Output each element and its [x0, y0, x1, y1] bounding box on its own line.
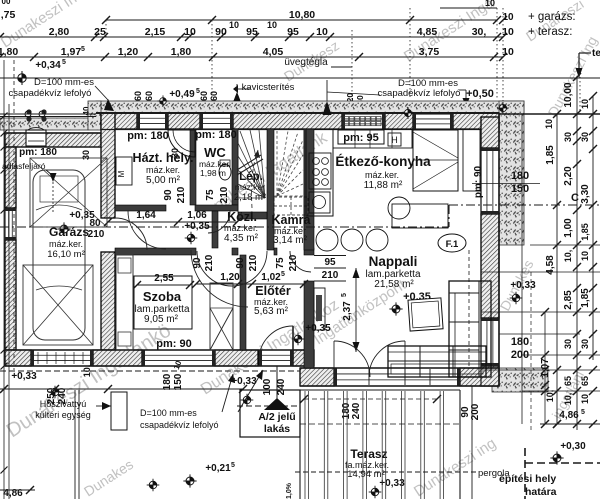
svg-text:M: M — [117, 170, 126, 177]
svg-text:210: 210 — [204, 254, 215, 271]
svg-text:+0,35: +0,35 — [184, 221, 210, 232]
svg-text:+0,50: +0,50 — [466, 88, 494, 100]
svg-text:10: 10 — [229, 20, 239, 30]
svg-text:10: 10 — [316, 26, 328, 38]
svg-text:pm: 90: pm: 90 — [473, 165, 484, 198]
svg-text:D=100 mm-es: D=100 mm-es — [140, 408, 197, 418]
svg-text:Előtér: Előtér — [255, 284, 291, 298]
svg-text:+0,33: +0,33 — [510, 280, 536, 291]
svg-text:máz.ker.: máz.ker. — [146, 165, 180, 175]
svg-text:5: 5 — [341, 293, 348, 297]
svg-text:2,80: 2,80 — [49, 26, 70, 38]
svg-text:4,58: 4,58 — [545, 255, 556, 275]
svg-text:D=100 mm-es: D=100 mm-es — [34, 77, 94, 88]
svg-text:2,18 m²: 2,18 m² — [234, 192, 266, 203]
svg-text:210: 210 — [322, 270, 339, 281]
svg-text:30: 30 — [563, 339, 573, 349]
svg-text:65: 65 — [580, 376, 590, 386]
svg-text:210: 210 — [248, 254, 259, 271]
svg-text:Szoba: Szoba — [143, 289, 182, 304]
svg-text:10: 10 — [544, 119, 554, 129]
svg-text:1,97: 1,97 — [61, 46, 82, 58]
svg-text:30: 30 — [81, 150, 91, 160]
svg-text:210: 210 — [88, 229, 105, 240]
svg-text:pm: 180: pm: 180 — [127, 130, 169, 142]
svg-text:1,98 m: 1,98 m — [200, 168, 226, 178]
svg-text:máz.ker.: máz.ker. — [365, 170, 399, 180]
svg-text:határa: határa — [525, 486, 557, 498]
svg-text:lakás: lakás — [264, 423, 290, 435]
svg-text:+ terasz:: + terasz: — [528, 26, 572, 38]
svg-text:10: 10 — [267, 20, 277, 30]
svg-text:Nappali: Nappali — [369, 254, 418, 269]
svg-text:1,02: 1,02 — [261, 272, 281, 283]
svg-text:5: 5 — [81, 46, 85, 53]
svg-text:60: 60 — [199, 91, 209, 101]
svg-text:180: 180 — [511, 170, 529, 182]
svg-text:16,10 m²: 16,10 m² — [47, 249, 85, 260]
svg-text:9,05 m²: 9,05 m² — [144, 314, 179, 325]
svg-text:210: 210 — [219, 186, 230, 203]
svg-text:+0,21: +0,21 — [205, 463, 231, 474]
svg-text:100: 100 — [262, 378, 273, 395]
svg-text:150: 150 — [173, 373, 184, 390]
svg-text:1,64: 1,64 — [136, 210, 156, 221]
svg-text:1,20: 1,20 — [220, 272, 240, 283]
svg-text:30: 30 — [580, 339, 590, 349]
svg-text:95: 95 — [324, 257, 336, 268]
svg-text:Házt. hely.: Házt. hely. — [133, 151, 194, 165]
svg-text:1,06: 1,06 — [187, 210, 207, 221]
svg-text:10: 10 — [580, 99, 590, 109]
svg-text:10,: 10, — [545, 390, 555, 403]
svg-text:75: 75 — [205, 189, 216, 201]
svg-text:+0,35: +0,35 — [305, 323, 331, 334]
svg-text:240: 240 — [351, 402, 362, 419]
svg-text:10: 10 — [502, 46, 514, 58]
svg-text:+0,49: +0,49 — [169, 89, 195, 100]
svg-text:10: 10 — [580, 251, 590, 261]
svg-text:kültéri egység: kültéri egység — [35, 410, 91, 420]
svg-text:1,85: 1,85 — [580, 223, 590, 241]
svg-text:A/2 jelű: A/2 jelű — [258, 411, 295, 423]
svg-text:90: 90 — [163, 189, 174, 201]
svg-text:4,85: 4,85 — [417, 26, 438, 38]
svg-text:210: 210 — [176, 186, 187, 203]
svg-text:2,20: 2,20 — [563, 166, 574, 186]
svg-text:3,75: 3,75 — [419, 46, 440, 58]
svg-text:5: 5 — [231, 462, 235, 469]
svg-text:60: 60 — [133, 91, 143, 101]
svg-text:5,00 m²: 5,00 m² — [146, 175, 181, 186]
svg-text:10,: 10, — [563, 393, 573, 406]
svg-text:4,05: 4,05 — [263, 46, 284, 58]
svg-text:üvegtégla: üvegtégla — [284, 57, 328, 68]
svg-text:11,88 m²: 11,88 m² — [364, 180, 403, 191]
svg-text:1,20: 1,20 — [118, 46, 139, 58]
svg-text:pm: 95: pm: 95 — [343, 132, 378, 144]
svg-text:1,80: 1,80 — [0, 46, 18, 58]
svg-text:+0,34: +0,34 — [35, 60, 61, 71]
svg-text:pm: 180: pm: 180 — [19, 147, 57, 158]
svg-text:építési hely: építési hely — [499, 473, 556, 485]
svg-text:10,: 10, — [563, 250, 573, 263]
svg-text:pm: 180: pm: 180 — [195, 129, 237, 141]
svg-text:10: 10 — [580, 394, 590, 404]
svg-text:5: 5 — [581, 409, 585, 416]
svg-text:180: 180 — [162, 373, 173, 390]
svg-text:10: 10 — [502, 12, 514, 23]
svg-text:1,0%: 1,0% — [286, 482, 293, 499]
svg-text:2,55: 2,55 — [154, 273, 174, 284]
svg-text:60: 60 — [209, 91, 219, 101]
svg-text:máz.ker: máz.ker — [235, 182, 265, 192]
svg-text:1,80: 1,80 — [171, 46, 192, 58]
svg-text:10: 10 — [502, 26, 514, 38]
svg-text:95: 95 — [287, 26, 299, 38]
svg-text:2,85: 2,85 — [563, 290, 574, 310]
svg-text:60: 60 — [144, 91, 154, 101]
svg-text:10: 10 — [184, 26, 196, 38]
svg-text:1,85: 1,85 — [545, 145, 556, 165]
svg-text:2,15: 2,15 — [145, 26, 166, 38]
svg-text:4,35 m²: 4,35 m² — [224, 233, 259, 244]
svg-text:150: 150 — [511, 183, 529, 195]
svg-text:WC: WC — [204, 145, 226, 160]
svg-text:3,30: 3,30 — [580, 184, 591, 204]
svg-text:65: 65 — [563, 376, 573, 386]
svg-text:2,37: 2,37 — [342, 301, 353, 321]
svg-text:30: 30 — [563, 132, 573, 142]
svg-text:csapadékvíz lefolyó: csapadékvíz lefolyó — [9, 88, 92, 99]
svg-text:90: 90 — [215, 26, 227, 38]
svg-text:+0,33: +0,33 — [11, 371, 37, 382]
svg-text:1,07: 1,07 — [540, 358, 551, 378]
svg-text:10,00: 10,00 — [563, 82, 574, 107]
svg-text:4,86: 4,86 — [559, 410, 579, 421]
svg-text:+0,33: +0,33 — [231, 376, 257, 387]
svg-text:1,85: 1,85 — [580, 288, 591, 308]
svg-text:máz.ker.: máz.ker. — [224, 223, 258, 233]
svg-text:5: 5 — [62, 59, 66, 66]
svg-text:Étkező-konyha: Étkező-konyha — [335, 154, 431, 169]
svg-text:25: 25 — [94, 26, 106, 38]
svg-text:kavicsterítés: kavicsterítés — [242, 82, 295, 93]
svg-text:3,14 m²: 3,14 m² — [273, 235, 308, 246]
svg-text:+0,30: +0,30 — [560, 441, 586, 452]
svg-text:21,58 m²: 21,58 m² — [374, 279, 414, 290]
svg-text:5,63 m²: 5,63 m² — [254, 306, 289, 317]
svg-text:240: 240 — [276, 378, 287, 395]
svg-text:1,00: 1,00 — [563, 218, 574, 238]
svg-text:10,80: 10,80 — [289, 9, 315, 21]
svg-text:90: 90 — [235, 257, 246, 269]
svg-text:pm: 90: pm: 90 — [156, 338, 191, 350]
svg-text:30: 30 — [580, 132, 590, 142]
svg-text:75: 75 — [275, 257, 286, 269]
svg-text:Hőszivattyú: Hőszivattyú — [40, 399, 87, 409]
svg-text:F.1: F.1 — [446, 239, 459, 250]
svg-text:C: C — [571, 192, 579, 204]
svg-text:95: 95 — [246, 26, 258, 38]
svg-text:+ garázs:: + garázs: — [528, 11, 576, 23]
svg-text:csapadékvíz lefolyó: csapadékvíz lefolyó — [378, 88, 461, 99]
svg-text:te: te — [592, 48, 600, 59]
svg-text:00: 00 — [2, 0, 11, 6]
svg-text:10: 10 — [485, 0, 495, 8]
svg-text:máz.ker.: máz.ker. — [49, 239, 83, 249]
svg-text:adlásfeljáró: adlásfeljáró — [2, 161, 46, 171]
svg-text:,75: ,75 — [1, 9, 16, 21]
svg-text:180: 180 — [511, 336, 529, 348]
svg-text:5: 5 — [281, 271, 285, 278]
svg-text:csapadékvíz lefolyó: csapadékvíz lefolyó — [140, 420, 219, 430]
svg-text:30,: 30, — [472, 26, 487, 38]
